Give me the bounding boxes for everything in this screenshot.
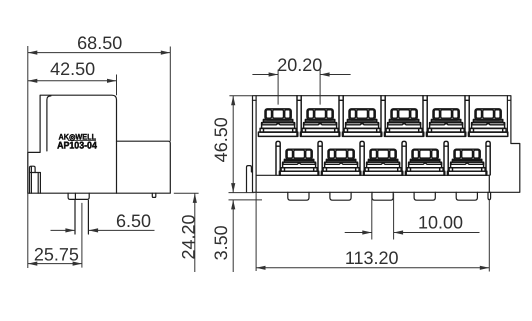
mounting foot 1 — [288, 192, 309, 200]
top row divider wall 3 — [381, 96, 385, 136]
dimension 6.50 — [51, 211, 155, 233]
svg-text:6.50: 6.50 — [116, 211, 151, 231]
bottom row terminal screw 3 — [363, 149, 402, 175]
front view shelf line — [256, 174, 489, 176]
top row divider wall 4 — [423, 96, 427, 136]
bottom row divider wall 3 — [360, 141, 364, 175]
top row divider wall 1 — [297, 96, 301, 136]
side view internal edge line — [116, 141, 118, 193]
svg-text:AP103-04: AP103-04 — [57, 141, 97, 152]
front view right inner wall line — [507, 96, 511, 134]
logo underline — [68, 140, 96, 142]
svg-text:46.50: 46.50 — [211, 117, 231, 162]
top row terminal screw 1 — [258, 109, 297, 136]
bottom row terminal screw 4 — [405, 149, 444, 175]
dimension 10.00 — [345, 194, 480, 240]
top row terminal screw 4 — [384, 109, 423, 136]
side view solder pin lines — [75, 200, 88, 234]
svg-text:68.50: 68.50 — [77, 33, 122, 53]
side view body outline — [28, 95, 171, 193]
dimension 24.20 — [174, 193, 199, 272]
svg-text:42.50: 42.50 — [50, 59, 95, 79]
dimension 42.50 — [28, 59, 117, 95]
front view right pin — [488, 192, 491, 199]
mounting foot 2 — [330, 192, 351, 200]
top row terminal screw 3 — [342, 109, 381, 136]
bottom row divider wall 2 — [318, 141, 322, 175]
dimension 3.50 — [211, 193, 262, 272]
bottom row terminal screw 2 — [321, 149, 360, 175]
svg-text:3.50: 3.50 — [211, 225, 231, 260]
bottom row divider wall 1 — [276, 141, 280, 175]
svg-text:113.20: 113.20 — [345, 248, 399, 268]
mounting foot 3 — [372, 192, 393, 200]
side view latch clip box — [30, 167, 41, 193]
bottom row divider wall 4 — [402, 141, 406, 175]
svg-text:10.00: 10.00 — [418, 212, 463, 232]
mounting foot 4 — [414, 192, 435, 200]
front view left inner wall line — [255, 96, 257, 193]
left extension line shared — [27, 46, 29, 268]
top row terminal screw 6 — [468, 109, 507, 136]
dimension 25.75 — [28, 203, 82, 268]
top row terminal screw 2 — [300, 109, 339, 136]
side view small right pin — [152, 193, 156, 197]
bottom row terminal screw 1 — [279, 149, 318, 175]
dimension 113.20 — [256, 192, 489, 271]
dimension 68.50 — [28, 33, 171, 141]
mounting foot 5 — [456, 192, 477, 200]
top row divider wall 2 — [339, 96, 343, 136]
bottom row terminal screw 5 — [447, 149, 486, 175]
top row terminal screw 5 — [426, 109, 465, 136]
front view left latch clip — [247, 166, 253, 193]
side view latch clip tab — [30, 166, 36, 172]
front view left end crossbar — [253, 99, 257, 101]
top row divider wall 5 — [465, 96, 469, 136]
side view inner face line — [47, 96, 51, 151]
dimension 20.20 — [252, 55, 350, 104]
side view screw mount block — [68, 193, 89, 199]
bottom row divider wall 6 — [486, 141, 490, 175]
svg-text:24.20: 24.20 — [179, 214, 199, 259]
front view body outline — [253, 96, 520, 193]
bottom row divider wall 5 — [444, 141, 448, 175]
svg-text:25.75: 25.75 — [34, 244, 79, 264]
svg-text:20.20: 20.20 — [277, 55, 322, 75]
front view wall line below shelf — [488, 175, 490, 192]
dimension 46.50 — [211, 96, 252, 193]
